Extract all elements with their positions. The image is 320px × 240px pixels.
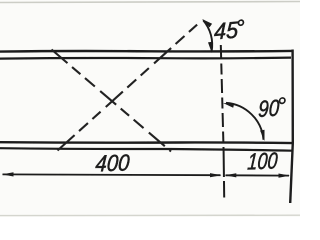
dimension line 100 <box>226 174 290 176</box>
arrowhead right end of 400 dim (points right to fold line) <box>210 173 222 177</box>
bottom edge upper line <box>0 141 293 144</box>
arrowhead at bottom of 90 arc (points down to bottom edge) <box>260 130 264 141</box>
45-degree arc <box>203 20 212 51</box>
arrowhead at bottom of 45 arc (points down to top edge) <box>208 42 212 53</box>
svg-text:400: 400 <box>95 149 131 176</box>
scan streak bottom <box>0 214 300 216</box>
top edge lower line <box>0 58 291 59</box>
dimension line 400 <box>3 173 221 176</box>
fold line extension below strip <box>223 151 226 198</box>
arrowhead right end of 100 dim (points right to strip edge) <box>279 174 291 178</box>
bend line X: ascending dashed diagonal continuing as 45-degree line <box>58 22 201 151</box>
arrowhead at left of 90 arc (points to fold line) <box>223 103 234 108</box>
bottom edge lower line <box>0 148 292 151</box>
svg-text:100: 100 <box>247 147 279 174</box>
label 90 deg <box>258 94 285 122</box>
label 45 deg <box>214 16 244 45</box>
bend line X: descending dashed diagonal <box>52 50 172 152</box>
label 100 <box>247 147 279 174</box>
90-degree arc <box>226 103 264 140</box>
top edge upper line <box>0 50 292 53</box>
arrowhead left end of 400 dim (points left) <box>2 172 14 176</box>
scan streak top <box>0 2 300 3</box>
arrowhead left end of 100 dim (points left to fold line) <box>225 173 237 177</box>
fold line (vertical dashed through strip) <box>221 45 224 151</box>
svg-text:90: 90 <box>258 94 280 122</box>
label 400 <box>95 149 131 176</box>
svg-text:45: 45 <box>214 16 239 44</box>
right edge of strip / extension line <box>290 50 293 204</box>
arrowhead at top of 45 arc <box>202 19 212 27</box>
